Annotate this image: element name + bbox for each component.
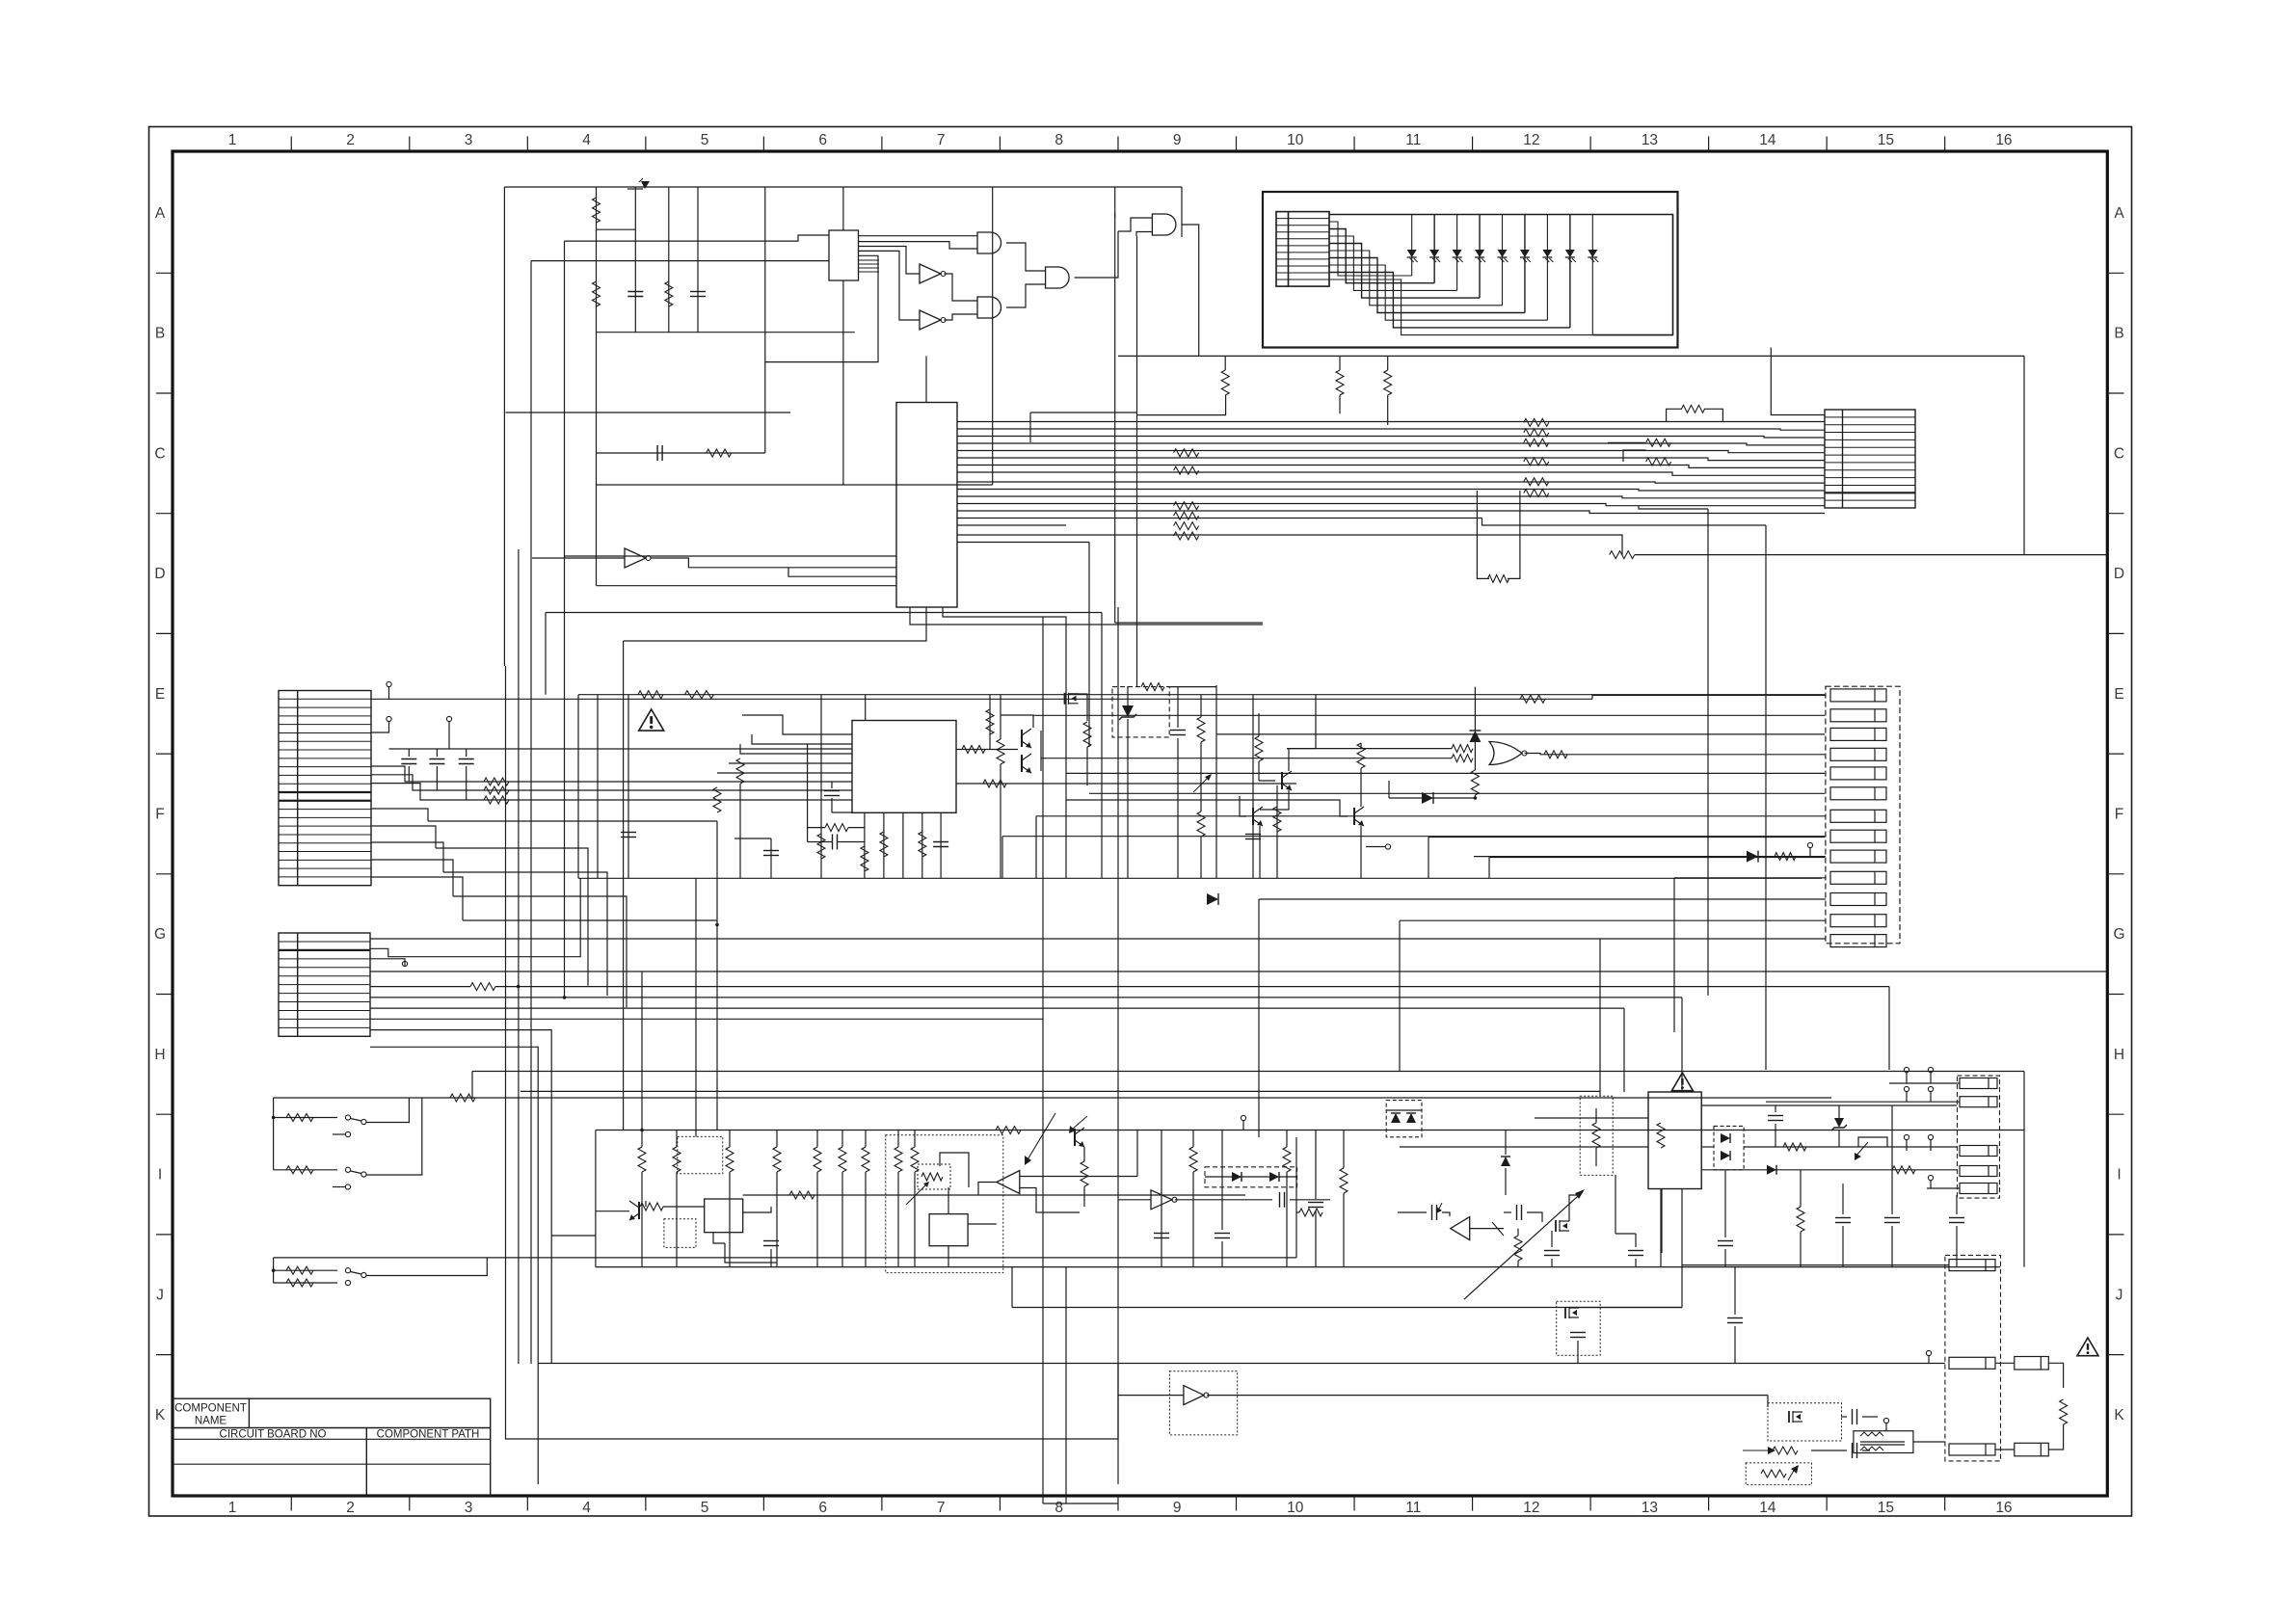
IC U3 body: [896, 403, 957, 608]
wire bus v490: [471, 1072, 473, 1100]
wire zd1 top: [1127, 686, 1129, 705]
wire matrix column 7: [1546, 215, 1548, 321]
wire u7 out: [968, 1223, 997, 1225]
wire RI6 b: [841, 1172, 843, 1267]
wire tj3: [1906, 1092, 1908, 1102]
resistor RE15: [1452, 745, 1473, 753]
wire stair v13: [1599, 939, 1601, 1096]
wire tk2: [1928, 1356, 1930, 1363]
resistor RK2: [1761, 1470, 1786, 1477]
title block row line 3: [173, 1463, 491, 1465]
wire ri15a: [1192, 1131, 1194, 1148]
wire T3 stub: [448, 722, 450, 749]
wire p3 net1: [1889, 1082, 1960, 1084]
capacitor CD1: [401, 758, 416, 760]
grid tick bottom 5: [762, 1496, 764, 1511]
wire sw bus: [273, 1098, 275, 1170]
grid tick top 10: [1353, 137, 1355, 152]
resistor fan x1594 y512: [1524, 490, 1549, 497]
wire u6 in: [596, 1211, 629, 1212]
svg-text:1: 1: [228, 132, 237, 148]
resistor RE9: [962, 746, 985, 754]
wire ck1: [1577, 1341, 1579, 1364]
wire q5 base: [1240, 796, 1246, 816]
connector P2 pin 7: [1830, 810, 1886, 822]
resistor RI18: [1299, 1209, 1322, 1216]
grid tick top 9: [1236, 137, 1238, 152]
resistor RH2: [286, 1166, 313, 1174]
wire rail J2: [1012, 1307, 1682, 1309]
connector P2 pin 4: [1830, 748, 1886, 760]
wire ri11a: [897, 1131, 899, 1148]
capacitor CD2: [429, 758, 444, 760]
wire tj1: [1906, 1073, 1908, 1083]
wire re3 drop: [739, 784, 741, 878]
wire u8 in1: [1020, 1176, 1137, 1178]
wire CN2 net5: [370, 971, 2107, 972]
resistor RB2: [1336, 370, 1344, 395]
resistor RH1: [286, 1114, 313, 1122]
connector P4 pin 1: [1949, 1260, 1995, 1271]
LED D7: [1542, 250, 1552, 257]
mosfet QK2: [1788, 1411, 1790, 1423]
resistor RI6: [839, 1147, 846, 1172]
connector P3 pin 1: [1960, 1078, 1997, 1089]
wire cj3a2: [1891, 1105, 1893, 1214]
grid tick bottom 10: [1353, 1496, 1355, 1511]
wire matrix loop 8: [1329, 273, 1570, 328]
wire fan net 8: [957, 472, 1825, 475]
resistor RE4: [713, 787, 721, 812]
wire x1106 long: [1065, 631, 1067, 878]
wire k bottom rail: [1043, 1503, 1118, 1504]
resistor RI1: [638, 1147, 646, 1172]
resistor RJ2: [1783, 1143, 1806, 1151]
connector P1 right: [1825, 410, 1915, 508]
grid tick right 7: [2107, 994, 2123, 996]
grid tick bottom 12: [1589, 1496, 1591, 1511]
wire re12b: [1086, 747, 1088, 785]
wire fan net 7: [957, 466, 1825, 468]
resistor RI8: [911, 1147, 919, 1172]
transistor Q6: [1353, 808, 1355, 825]
svg-text:A: A: [155, 205, 166, 222]
dashed box diode pair 1: [1205, 1167, 1297, 1187]
connector P2 pin 8: [1830, 830, 1886, 842]
wire stair v10: [1673, 878, 1675, 1032]
wire and3 to and4: [1118, 218, 1152, 231]
wire CN1 pin7: [371, 784, 852, 800]
resistor RD4: [470, 983, 495, 991]
svg-text:B: B: [2114, 326, 2123, 342]
wire rj4b: [1800, 1232, 1802, 1267]
switch SW2 pole: [361, 1172, 366, 1177]
wire cj1b: [1775, 1124, 1776, 1147]
grid tick left 1: [156, 272, 173, 274]
resistor RE12: [1083, 722, 1091, 747]
svg-text:14: 14: [1759, 132, 1776, 148]
resistor RI3: [726, 1147, 734, 1172]
wire fan net 3: [957, 437, 1825, 439]
wire fan net 12: [957, 504, 1825, 506]
wire bus x618: [596, 187, 598, 333]
resistor RK1: [1773, 1447, 1798, 1454]
resistor RE7: [919, 832, 926, 857]
wire RI7 b: [865, 1172, 867, 1267]
resistor RB1: [1221, 370, 1229, 395]
wire row d left: [506, 412, 791, 413]
wire qi2b: [1083, 1186, 1085, 1207]
protection dashed box: [1112, 687, 1169, 737]
buffer U9: [1151, 1190, 1172, 1210]
wire CN1 pin6: [371, 775, 852, 790]
potentiometer arrow 1: [906, 1184, 927, 1205]
wire RI5 a: [816, 1131, 818, 1148]
wire matrix loop 5: [1329, 251, 1503, 306]
resistor RI14: [1081, 1161, 1088, 1186]
wire fan net 1: [957, 421, 1825, 423]
grid tick right 9: [2107, 1234, 2123, 1236]
grid tick top 8: [1117, 137, 1119, 152]
wire U4 out1: [956, 749, 1018, 751]
wire u11 out: [1470, 1228, 1504, 1230]
wire RB3 stub: [1387, 356, 1389, 370]
resistor RE14: [1273, 807, 1281, 832]
wire matrix column 8: [1569, 215, 1571, 328]
resistor RC7: [1488, 574, 1509, 582]
wire cj5b: [1956, 1226, 1958, 1267]
wire q4 base: [1259, 780, 1275, 782]
wire cj6h: [1615, 1233, 1636, 1235]
svg-text:H: H: [2114, 1047, 2124, 1063]
transistor QI1: [638, 1202, 640, 1219]
transistor Q4: [1281, 772, 1283, 789]
wire cj8b: [1527, 1212, 1542, 1222]
connector P2 pin 2: [1830, 709, 1886, 722]
terminal TE1: [1385, 844, 1390, 849]
wire ck2b: [1734, 1326, 1736, 1364]
wire and4 in2: [1136, 232, 1152, 237]
wire u8 in2: [1020, 1188, 1080, 1213]
svg-text:F: F: [2115, 807, 2123, 823]
wire CN1 pin10: [371, 826, 436, 848]
capacitor CK1: [1570, 1332, 1586, 1334]
wire RI1 b: [641, 1172, 643, 1267]
grid tick bottom 7: [999, 1496, 1001, 1511]
wire bus g6: [472, 1071, 2024, 1073]
resistor RE8b: [817, 834, 825, 859]
choke windings: [1860, 1432, 1883, 1436]
svg-text:14: 14: [1759, 1500, 1776, 1516]
grid tick right 10: [2107, 1354, 2123, 1356]
wire x1160 seg2: [1117, 1364, 1119, 1485]
wire bank lower: [597, 484, 993, 486]
wire stair v12: [1399, 920, 1401, 1060]
wire ck4: [1811, 1450, 1847, 1451]
wire cj9: [1551, 1259, 1553, 1267]
LED D3: [1453, 250, 1462, 257]
zener diode ZJ1: [1834, 1118, 1844, 1128]
wire x1156 turn: [1115, 622, 1263, 624]
wire zj1b: [1838, 1130, 1840, 1147]
terminal TJ7: [1928, 1175, 1933, 1180]
wire stair net12: [1400, 919, 1826, 921]
resistor RI15: [1189, 1147, 1197, 1172]
wire x620 drop: [597, 695, 599, 879]
resistor RE3: [736, 758, 744, 784]
connector P2 pin 13: [1830, 935, 1886, 947]
wire x1300: [1252, 695, 1254, 879]
wire x1106 seg3: [1065, 1267, 1067, 1503]
wire x1069 drop: [1029, 412, 1031, 442]
wire CN1 pin1: [371, 687, 389, 700]
wire x874 drop: [842, 280, 844, 485]
wire sw2 lead: [274, 1169, 337, 1171]
wire vbus x1082: [1042, 617, 1044, 1503]
resistor fan x1230 y525: [1174, 502, 1199, 510]
wire CN1 pin12: [371, 860, 453, 896]
wire fan net 2: [957, 429, 1825, 430]
resistor RI4: [773, 1147, 781, 1172]
grid tick bottom 1: [290, 1496, 292, 1511]
grid tick bottom 11: [1472, 1496, 1474, 1511]
connector P2 pin 5: [1830, 767, 1886, 780]
and gate U1B: [977, 297, 1001, 318]
svg-text:K: K: [155, 1407, 166, 1423]
wire matrix column 9: [1591, 215, 1593, 335]
diode DJ4: [1721, 1151, 1730, 1160]
wire and2 out: [1006, 284, 1046, 307]
resistor RH4: [286, 1279, 313, 1287]
grid tick right 4: [2107, 632, 2123, 634]
transistor Q2: [1021, 755, 1023, 772]
wire U4 pin L1: [742, 715, 852, 734]
wire matrix loop 7: [1329, 265, 1547, 320]
wire splitter out 3: [859, 247, 921, 275]
connector P2 pin 9: [1830, 850, 1886, 863]
wire rail J bottom: [596, 1266, 2000, 1268]
grid tick top 3: [526, 137, 528, 152]
resistor RA2: [593, 281, 601, 306]
wire fan net 15: [957, 524, 1066, 526]
wire ce4b: [1177, 738, 1179, 878]
wire cj6b: [1635, 1259, 1637, 1267]
wire display to P1: [1771, 348, 1825, 415]
wire splitter out 4: [859, 251, 921, 320]
svg-text:F: F: [155, 807, 164, 823]
wire q6 emit: [1360, 826, 1362, 878]
wire vbus x2100: [2023, 1072, 2025, 1267]
svg-text:C: C: [154, 445, 165, 462]
svg-text:10: 10: [1287, 1500, 1304, 1516]
resistor RE11: [997, 739, 1004, 764]
resistor fan x1594 y438: [1524, 418, 1549, 426]
wire ck2a: [1734, 1267, 1736, 1315]
wire CN2 net7b: [495, 986, 1889, 988]
grid tick left 2: [156, 392, 173, 394]
wire sw1 lead: [274, 1117, 337, 1119]
svg-text:J: J: [2116, 1287, 2123, 1303]
wire rail E: [578, 694, 1825, 696]
wire qi1 c: [645, 1201, 647, 1207]
capacitor CJ3: [1835, 1217, 1851, 1219]
grid tick top 11: [1472, 137, 1474, 152]
wire sw1 nc lead: [333, 1133, 346, 1135]
wire cj3b2: [1891, 1226, 1893, 1267]
resistor RI10: [789, 1191, 814, 1199]
IC U10 body: [1648, 1092, 1701, 1189]
diode DJ2: [1406, 1113, 1416, 1123]
resistor fan x1230 y556: [1174, 532, 1199, 540]
wire CN2 net1: [370, 938, 1826, 940]
wire bus x1029: [992, 187, 994, 231]
wire U4 top: [865, 695, 867, 721]
wire dj34: [1701, 1146, 1714, 1148]
resistor RE17: [1544, 751, 1567, 758]
svg-text:I: I: [2117, 1167, 2121, 1184]
svg-text:6: 6: [818, 1500, 827, 1516]
or gate U5: [1489, 742, 1522, 765]
grid tick top 14: [1826, 137, 1828, 152]
wire U4 bottom pin 2: [883, 812, 885, 878]
wire re5 a: [808, 827, 825, 829]
grid tick right 5: [2107, 753, 2123, 755]
wire and3 out: [1075, 231, 1118, 278]
wire ce4a: [1177, 687, 1179, 728]
svg-text:E: E: [155, 686, 165, 703]
wire qk1 g: [1565, 1307, 1682, 1309]
wire choke out: [1913, 1441, 1945, 1443]
wire ri17b: [1343, 1193, 1345, 1267]
op-amp U11 buffer: [1451, 1217, 1470, 1240]
border frame outer: [149, 127, 2132, 1517]
grid tick top 13: [1708, 137, 1710, 152]
pointer diagonal head: [1575, 1189, 1585, 1199]
wire and4 feedback: [1114, 213, 1116, 218]
wire r1 tie: [597, 228, 636, 230]
wire ri16a: [1286, 1131, 1288, 1148]
svg-text:COMPONENT: COMPONENT: [174, 1403, 247, 1415]
connector P4 dashed outline: [1945, 1255, 2001, 1461]
wire CD2 v2: [436, 766, 438, 790]
wire RI8 a: [914, 1131, 916, 1148]
resistor fan x1230 y488: [1174, 466, 1199, 474]
wire x722 feed: [695, 878, 697, 1136]
wire CD3 v2: [466, 766, 467, 800]
wire f1 to res: [2048, 1363, 2063, 1388]
resistor fan x1594 y459: [1524, 439, 1549, 446]
resistor RE20: [1197, 717, 1205, 742]
wire bypass loop b: [1704, 409, 1722, 421]
wire net 575: [1635, 554, 2107, 556]
wire gate block right: [1136, 236, 1138, 687]
fuse F1: [2015, 1357, 2049, 1370]
wire ci1: [770, 1249, 772, 1267]
wire CN2 net7a: [370, 986, 470, 988]
wire u10 in1: [1535, 1117, 1648, 1119]
bus splitter block: [829, 230, 859, 280]
resistor RE5: [825, 824, 848, 832]
capacitor CE1: [832, 835, 834, 850]
svg-text:3: 3: [465, 1500, 473, 1516]
wire RB2 drop: [1339, 395, 1341, 413]
svg-text:4: 4: [582, 132, 591, 148]
wire box bottom rail: [1118, 355, 2024, 357]
LED D2: [1429, 250, 1439, 257]
svg-text:13: 13: [1642, 132, 1658, 148]
wire cj3a: [1842, 1184, 1844, 1214]
capacitor CI4: [1308, 1202, 1323, 1204]
resistor fan x1230 y535: [1174, 512, 1199, 519]
svg-text:K: K: [2114, 1407, 2124, 1423]
dotted box QK2: [1768, 1403, 1842, 1441]
wire ri15b: [1192, 1172, 1194, 1267]
wire cj2b: [1724, 1249, 1726, 1267]
wire ce1 b: [838, 841, 865, 843]
resistor RE8: [861, 846, 868, 871]
switch SW1 pole: [361, 1119, 366, 1124]
wire IC in 598: [788, 568, 896, 576]
dotted box BI3: [886, 1135, 1003, 1273]
wire U3 bottom 2: [624, 607, 926, 641]
wire bus x1226: [1181, 187, 1183, 237]
wire x852: [820, 695, 822, 879]
wire sw3 bus: [273, 1258, 275, 1283]
wire U4 bottom pin 5: [940, 812, 942, 878]
dashed box mosfet K1: [1557, 1301, 1601, 1355]
resistor RE21: [1197, 811, 1205, 837]
capacitor CE2: [933, 841, 948, 843]
wire inv U2C in: [532, 557, 625, 559]
svg-text:11: 11: [1405, 132, 1421, 148]
wire CN2 net8: [370, 997, 1682, 998]
wire CD2 v1: [436, 749, 438, 757]
junction de2: [1474, 796, 1478, 800]
grid tick right 8: [2107, 1113, 2123, 1115]
wire bypass loop: [1667, 409, 1682, 421]
wire U3 bottom 1: [910, 607, 1263, 625]
mosfet QJ1: [1555, 1220, 1557, 1232]
svg-text:COMPONENT PATH: COMPONENT PATH: [377, 1428, 480, 1440]
diode DE2: [1422, 792, 1433, 804]
transistor Q5: [1252, 808, 1254, 825]
wire x646 feed: [623, 641, 625, 1131]
grid tick right 3: [2107, 513, 2123, 515]
wire de1 bot: [1474, 742, 1476, 770]
capacitor CI2: [1154, 1233, 1169, 1235]
wire p4 to f2: [1995, 1449, 2015, 1450]
IC U4 body: [852, 721, 956, 813]
capacitor CE5: [1245, 834, 1261, 836]
and gate U1A: [977, 232, 1001, 253]
wire u4 left node: [807, 744, 809, 842]
wire x618 seg3: [596, 333, 598, 485]
capacitor CE3: [763, 850, 779, 852]
grid tick top 4: [645, 137, 647, 152]
grid tick bottom 4: [645, 1496, 647, 1511]
grid tick right 1: [2107, 272, 2123, 274]
switch SW3 pole: [361, 1272, 366, 1277]
wire de1 top: [1474, 687, 1476, 731]
wire rail left v: [595, 1131, 597, 1267]
wire x1246a: [1200, 695, 1202, 717]
wire ri17a: [1343, 1131, 1345, 1169]
diode DJ1: [1391, 1113, 1401, 1123]
wire matrix column 3: [1456, 215, 1458, 291]
wire rj5b: [1517, 1261, 1519, 1267]
wire tj6: [1930, 1140, 1932, 1151]
inverter U2A: [920, 264, 941, 283]
